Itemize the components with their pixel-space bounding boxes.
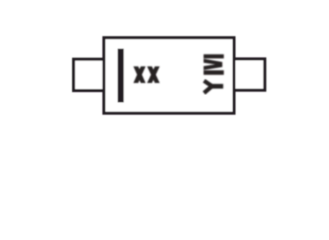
- left lead tab: [74, 59, 105, 90]
- marking text xx (first x): [133, 66, 145, 83]
- right lead tab: [234, 59, 265, 90]
- marking text YM (letter Y, rotated 90 CCW): [204, 81, 223, 93]
- cathode band: [118, 49, 124, 103]
- marking text xx (second x): [147, 66, 160, 83]
- package body: [104, 38, 234, 114]
- marking text YM (letter M, rotated 90 CCW): [204, 54, 224, 75]
